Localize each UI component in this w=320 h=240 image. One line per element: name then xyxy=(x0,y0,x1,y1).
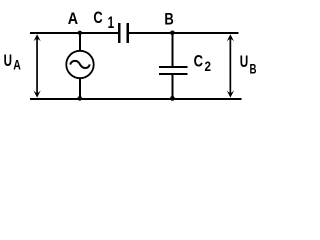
label U_A xyxy=(4,52,21,72)
svg-text:A: A xyxy=(68,10,78,28)
label U_B xyxy=(240,53,257,76)
junction dot: C2 on bottom rail xyxy=(170,96,175,101)
label C1 xyxy=(93,9,114,32)
wire: C2 down to bottom rail xyxy=(171,75,173,98)
svg-text:U: U xyxy=(240,53,249,71)
wire: node A down to source top xyxy=(79,33,81,51)
svg-text:U: U xyxy=(4,52,12,70)
wire: node B down to C2 xyxy=(171,33,173,66)
node B junction dot xyxy=(170,31,175,36)
svg-text:A: A xyxy=(13,56,21,72)
capacitor C2 xyxy=(159,66,188,75)
wire: source bottom to bottom rail xyxy=(79,78,81,98)
label C2 xyxy=(194,53,212,74)
voltage arrow U_A (double-headed vertical) xyxy=(33,34,40,97)
svg-text:2: 2 xyxy=(205,58,212,74)
svg-text:1: 1 xyxy=(108,13,115,32)
voltage arrow U_B (double-headed vertical) xyxy=(227,34,234,97)
svg-text:C: C xyxy=(194,53,203,71)
junction dot: source on bottom rail xyxy=(78,96,83,101)
AC source U1 circle xyxy=(66,51,93,78)
wire: bottom rail xyxy=(30,98,242,100)
wire: top rail left segment (source to C1) xyxy=(30,32,118,34)
wire: top rail right segment (C1 to right end) xyxy=(129,32,238,34)
svg-text:B: B xyxy=(250,60,257,76)
node A junction dot xyxy=(78,31,82,35)
capacitor C1 xyxy=(118,23,129,43)
svg-text:B: B xyxy=(164,10,173,28)
svg-text:C: C xyxy=(93,9,102,27)
AC source sine wave xyxy=(70,61,90,68)
